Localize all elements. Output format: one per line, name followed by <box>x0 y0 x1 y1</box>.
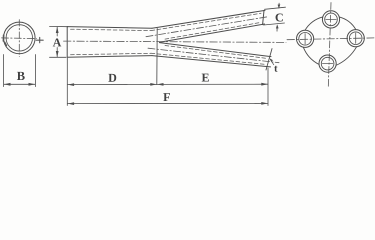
hidden line: top branch inner wall lower <box>165 22 261 39</box>
hidden line: main tube inner wall bottom <box>71 53 152 54</box>
hidden line: bottom branch inner wall lower <box>151 53 265 64</box>
C dimension stub below <box>276 26 278 31</box>
right extension line for E and F <box>267 68 269 106</box>
label t <box>274 66 277 72</box>
top branch end cap <box>263 10 264 24</box>
top branch upper edge <box>152 10 265 28</box>
shell arc south-west <box>303 47 319 64</box>
tick at circle west quadrant <box>2 35 4 41</box>
left section view: outer circle <box>3 22 35 54</box>
E arrowheads <box>157 83 268 86</box>
C top extension line <box>265 7 286 9</box>
shell arc west-north <box>305 17 323 30</box>
F dimension line <box>68 102 268 104</box>
south tube inner circle <box>321 57 334 70</box>
bottom branch lower edge <box>152 56 271 67</box>
north tube outer circle <box>322 11 339 28</box>
C bottom extension line <box>264 23 285 25</box>
left section view: inner circle (tube bore) <box>6 25 32 51</box>
east tube inner circle <box>349 32 362 45</box>
hidden line: main tube inner wall top <box>71 29 152 30</box>
west tube vertical center dash <box>304 34 306 44</box>
bottom branch centerline <box>148 48 279 63</box>
south tube outer circle <box>319 55 336 72</box>
shell arc north-east <box>339 17 356 30</box>
B left extension line <box>3 55 5 87</box>
label F <box>163 93 170 101</box>
west tube outer circle <box>297 30 314 47</box>
east tube outer circle <box>347 30 364 47</box>
B dimension line <box>4 83 35 85</box>
left extension line for D and F <box>66 58 68 106</box>
right section horizontal centerline <box>287 38 374 40</box>
bottom branch end slanted cap <box>266 49 272 70</box>
main tube left end cap <box>66 27 68 58</box>
F arrowheads <box>68 102 268 105</box>
main tube top line <box>67 27 152 29</box>
main tube bottom line <box>67 56 152 58</box>
left circle horizontal centerline <box>2 37 37 40</box>
label D <box>108 74 116 82</box>
shell arc east-south <box>336 47 357 66</box>
B right extension line <box>34 55 36 87</box>
west tube inner circle <box>299 33 312 46</box>
main horizontal centerline <box>64 41 287 42</box>
label E <box>202 74 209 82</box>
E dimension line <box>157 83 268 85</box>
dimension A line upper part <box>56 27 58 36</box>
C dimension stub above <box>278 3 280 8</box>
D arrowheads <box>68 83 157 86</box>
top branch lower edge (from crotch) <box>160 24 265 42</box>
left circle vertical centerline <box>18 20 20 57</box>
dimension A line lower part <box>56 48 58 57</box>
tick at circle south-west <box>5 42 7 45</box>
north tube horizontal center dash <box>326 18 336 20</box>
east tube vertical center dash <box>355 33 357 43</box>
D dimension line <box>68 83 157 85</box>
south tube horizontal center dash <box>322 63 332 65</box>
hidden line: bottom branch inner wall upper <box>165 46 266 59</box>
label B <box>17 72 25 80</box>
top branch centerline <box>146 17 268 37</box>
centre mark cross right of circle <box>36 37 43 42</box>
north tube inner circle <box>325 13 338 26</box>
t leader arrow <box>270 59 274 64</box>
C arrowheads <box>276 4 280 28</box>
junction seam / D-E extension line <box>156 28 158 84</box>
hidden line: top branch inner wall upper <box>151 13 261 30</box>
B dimension arrowheads <box>4 83 35 86</box>
dimension A bottom extension line <box>50 56 67 58</box>
right section vertical centerline <box>328 3 331 88</box>
label A <box>53 38 61 46</box>
A arrowheads <box>56 27 59 58</box>
dimension A top extension line <box>50 25 69 27</box>
label C <box>276 13 283 21</box>
bottom branch upper edge (from crotch) <box>160 43 272 57</box>
